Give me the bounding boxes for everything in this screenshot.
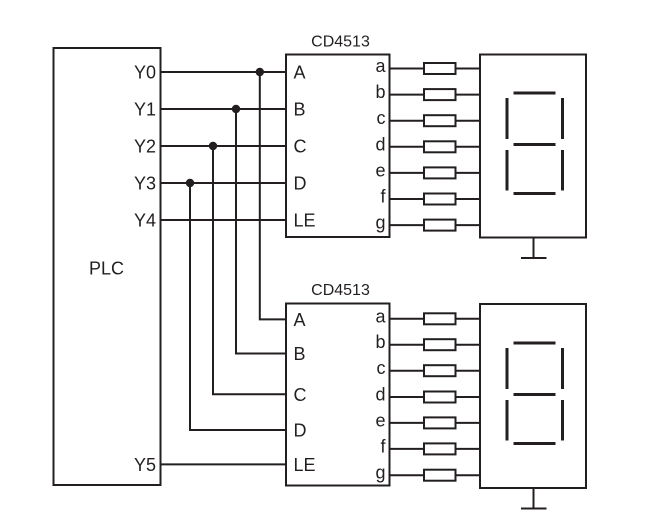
wire U2 pin g to resistor: [390, 474, 425, 476]
PLC pin label Y3: [134, 174, 156, 194]
U2 pin label C: [294, 385, 307, 405]
U1 pin label LE: [294, 211, 316, 231]
U2 pin label D: [294, 421, 307, 441]
svg-text:g: g: [375, 463, 385, 483]
DS2 segment g (middle): [514, 393, 556, 396]
wire resistor to display segment a: [456, 68, 481, 70]
resistor R17 (segment g current limit): [424, 220, 456, 231]
PLC label: [89, 259, 124, 279]
svg-text:CD4513: CD4513: [311, 33, 370, 50]
wire resistor to display segment e: [456, 422, 481, 424]
svg-text:e: e: [375, 410, 385, 430]
U2 pin label e: [375, 410, 385, 430]
wire U2 pin d to resistor: [390, 396, 425, 398]
wire resistor to display segment a: [456, 318, 481, 320]
wire U1 pin f to resistor: [390, 198, 425, 200]
resistor R26 (segment f current limit): [424, 443, 456, 454]
svg-text:g: g: [375, 213, 385, 233]
wire Y4: PLC Y4 to U1 pin LE: [161, 219, 287, 221]
PLC pin label Y4: [134, 211, 156, 231]
U2 pin label c: [377, 358, 386, 378]
svg-text:D: D: [294, 421, 307, 441]
wire U1 pin d to resistor: [390, 146, 425, 148]
U2 pin label a: [375, 306, 386, 326]
U1 pin label D: [294, 174, 307, 194]
wire resistor to display segment g: [456, 474, 481, 476]
U1 pin label a: [375, 56, 386, 76]
DS2 segment c (lower right): [561, 400, 564, 441]
DS1 segment d (bottom): [514, 192, 556, 195]
svg-text:B: B: [294, 100, 306, 120]
wire Y1: PLC Y1 to U1 pin B: [161, 108, 287, 110]
IC U2 value label CD4513: [311, 282, 370, 299]
wire branch Y2 down to U2 pin C: [213, 146, 286, 394]
IC U1 CD4513 body: [286, 55, 390, 238]
svg-text:Y3: Y3: [134, 174, 156, 194]
wire Y0: PLC Y0 to U1 pin A: [161, 71, 287, 73]
U1 pin label b: [375, 82, 385, 102]
U1 pin label A: [294, 63, 306, 83]
wire resistor to display segment c: [456, 370, 481, 372]
ground symbol for DS1: [521, 238, 547, 259]
DS1 segment f (upper left): [506, 98, 509, 139]
wire resistor to display segment c: [456, 120, 481, 122]
wire U2 pin e to resistor: [390, 422, 425, 424]
DS1 segment g (middle): [514, 143, 556, 146]
wire Y3: PLC Y3 to U1 pin D: [161, 182, 287, 184]
wire Y5: PLC Y5 to U2 pin LE: [161, 463, 287, 465]
DS1 segment a (top): [514, 92, 556, 95]
wire branch Y0 down to U2 pin A: [260, 72, 286, 319]
wire U1 pin b to resistor: [390, 94, 425, 96]
PLC pin label Y0: [134, 63, 156, 83]
resistor R15 (segment e current limit): [424, 167, 456, 178]
wire resistor to display segment d: [456, 146, 481, 148]
svg-text:Y1: Y1: [134, 100, 156, 120]
U1 pin label f: [380, 187, 386, 207]
resistor R21 (segment a current limit): [424, 313, 456, 324]
svg-text:CD4513: CD4513: [311, 282, 370, 299]
DS1 segment e (lower left): [506, 150, 509, 191]
svg-text:a: a: [375, 306, 386, 326]
wire U1 pin a to resistor: [390, 68, 425, 70]
wire U2 pin f to resistor: [390, 448, 425, 450]
junction node Y3: [186, 179, 194, 187]
svg-text:Y4: Y4: [134, 211, 156, 231]
wire resistor to display segment b: [456, 94, 481, 96]
resistor R11 (segment a current limit): [424, 63, 456, 74]
resistor R25 (segment e current limit): [424, 417, 456, 428]
U1 pin label B: [294, 100, 306, 120]
U1 pin label e: [375, 160, 385, 180]
wire resistor to display segment f: [456, 198, 481, 200]
PLC pin label Y2: [134, 137, 156, 157]
resistor R27 (segment g current limit): [424, 470, 456, 481]
svg-text:PLC: PLC: [89, 259, 124, 279]
DS2 segment e (lower left): [506, 400, 509, 441]
resistor R12 (segment b current limit): [424, 89, 456, 100]
wire Y2: PLC Y2 to U1 pin C: [161, 145, 287, 147]
resistor R23 (segment c current limit): [424, 365, 456, 376]
svg-text:Y5: Y5: [134, 455, 156, 475]
U2 pin label A: [294, 310, 306, 330]
wire U1 pin c to resistor: [390, 120, 425, 122]
U2 pin label b: [375, 332, 385, 352]
wire U2 pin c to resistor: [390, 370, 425, 372]
U1 pin label c: [377, 108, 386, 128]
U1 pin label d: [375, 134, 385, 154]
wire resistor to display segment g: [456, 224, 481, 226]
ground symbol for DS2: [521, 488, 547, 509]
svg-text:C: C: [294, 137, 307, 157]
resistor R22 (segment b current limit): [424, 339, 456, 350]
resistor R16 (segment f current limit): [424, 194, 456, 205]
PLC pin label Y5: [134, 455, 156, 475]
wire U2 pin b to resistor: [390, 344, 425, 346]
wire branch Y1 down to U2 pin B: [236, 109, 286, 354]
svg-text:D: D: [294, 174, 307, 194]
wire resistor to display segment e: [456, 172, 481, 174]
svg-text:LE: LE: [294, 211, 316, 231]
wire U2 pin a to resistor: [390, 318, 425, 320]
svg-text:c: c: [377, 358, 386, 378]
PLC pin label Y1: [134, 100, 156, 120]
U2 pin label f: [380, 436, 386, 456]
U2 pin label B: [294, 344, 306, 364]
wire resistor to display segment d: [456, 396, 481, 398]
U2 pin label d: [375, 385, 385, 405]
PLC block: [54, 48, 161, 485]
U2 pin label g: [375, 463, 385, 483]
DS2 segment d (bottom): [514, 442, 556, 445]
DS2 segment a (top): [514, 342, 556, 345]
svg-text:Y2: Y2: [134, 137, 156, 157]
junction node Y1: [232, 105, 240, 113]
seven-segment display DS1 body: [480, 55, 586, 238]
svg-text:a: a: [375, 56, 386, 76]
svg-text:d: d: [375, 385, 385, 405]
U1 pin label g: [375, 213, 385, 233]
DS1 segment b (upper right): [561, 98, 564, 139]
resistor R14 (segment d current limit): [424, 141, 456, 152]
wire U1 pin e to resistor: [390, 172, 425, 174]
seven-segment display DS2 body: [480, 304, 586, 488]
DS2 segment f (upper left): [506, 348, 509, 389]
svg-text:b: b: [375, 332, 385, 352]
svg-text:A: A: [294, 63, 306, 83]
wire U1 pin g to resistor: [390, 224, 425, 226]
svg-text:c: c: [377, 108, 386, 128]
U2 pin label LE: [294, 455, 316, 475]
DS2 segment b (upper right): [561, 348, 564, 389]
svg-text:Y0: Y0: [134, 63, 156, 83]
svg-text:b: b: [375, 82, 385, 102]
resistor R13 (segment c current limit): [424, 115, 456, 126]
wire resistor to display segment f: [456, 448, 481, 450]
svg-text:A: A: [294, 310, 306, 330]
junction node Y2: [209, 142, 217, 150]
DS1 segment c (lower right): [561, 150, 564, 191]
svg-text:e: e: [375, 160, 385, 180]
junction node Y0: [256, 68, 264, 76]
svg-text:d: d: [375, 134, 385, 154]
svg-text:LE: LE: [294, 455, 316, 475]
IC U2 CD4513 body: [286, 304, 390, 486]
svg-text:C: C: [294, 385, 307, 405]
U1 pin label C: [294, 137, 307, 157]
IC U1 value label CD4513: [311, 33, 370, 50]
resistor R24 (segment d current limit): [424, 392, 456, 403]
wire resistor to display segment b: [456, 344, 481, 346]
wire branch Y3 down to U2 pin D: [190, 183, 286, 430]
svg-text:B: B: [294, 344, 306, 364]
